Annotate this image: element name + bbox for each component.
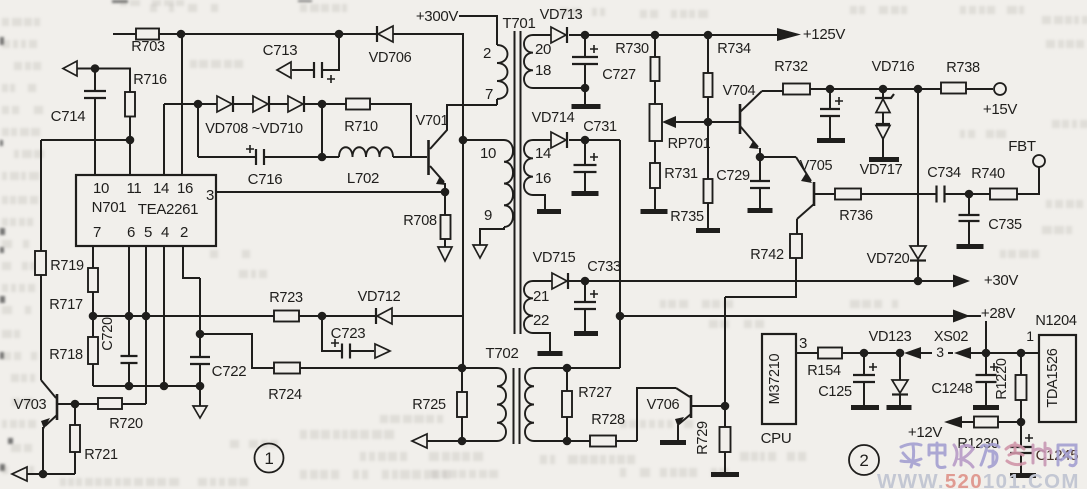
svg-text:+28V: +28V xyxy=(981,305,1016,322)
svg-text:R724: R724 xyxy=(268,387,302,403)
svg-text:R717: R717 xyxy=(49,297,83,313)
svg-text:N1204: N1204 xyxy=(1035,313,1076,329)
svg-text:C733: C733 xyxy=(587,259,621,275)
svg-text:C729: C729 xyxy=(716,168,750,184)
svg-text:C714: C714 xyxy=(51,108,86,125)
svg-text:R728: R728 xyxy=(591,412,625,428)
svg-text:7: 7 xyxy=(93,224,101,241)
svg-text:V703: V703 xyxy=(14,397,47,413)
svg-text:5: 5 xyxy=(144,224,152,241)
svg-text:N701: N701 xyxy=(92,199,127,216)
svg-text:3: 3 xyxy=(936,344,944,360)
svg-text:R727: R727 xyxy=(578,385,612,401)
svg-text:20: 20 xyxy=(535,41,551,58)
svg-text:R718: R718 xyxy=(49,347,83,363)
svg-text:18: 18 xyxy=(535,62,551,79)
svg-text:FBT: FBT xyxy=(1008,138,1036,155)
svg-text:9: 9 xyxy=(484,207,492,224)
svg-text:10: 10 xyxy=(93,180,109,197)
svg-text:C716: C716 xyxy=(248,171,283,188)
svg-text:R731: R731 xyxy=(664,166,698,182)
svg-text:R738: R738 xyxy=(946,60,980,76)
svg-text:VD708 ~VD710: VD708 ~VD710 xyxy=(205,121,303,137)
svg-text:3: 3 xyxy=(799,335,807,352)
svg-text:+125V: +125V xyxy=(803,26,846,43)
svg-text:11: 11 xyxy=(127,180,142,197)
svg-text:C1248: C1248 xyxy=(931,381,972,397)
svg-text:VD706: VD706 xyxy=(369,50,412,66)
svg-text:C722: C722 xyxy=(212,363,247,380)
svg-text:R719: R719 xyxy=(50,258,84,274)
svg-text:R742: R742 xyxy=(750,247,784,263)
svg-text:VD714: VD714 xyxy=(532,110,575,126)
svg-text:7: 7 xyxy=(485,86,493,103)
svg-text:R740: R740 xyxy=(971,166,1005,182)
svg-text:WWW.520101.COM: WWW.520101.COM xyxy=(877,470,1080,489)
svg-text:VD712: VD712 xyxy=(358,289,401,305)
svg-text:R710: R710 xyxy=(344,119,378,135)
svg-text:C720: C720 xyxy=(100,317,116,351)
svg-text:+15V: +15V xyxy=(983,101,1018,118)
svg-text:C723: C723 xyxy=(331,325,366,342)
svg-text:R725: R725 xyxy=(412,397,446,413)
svg-text:2: 2 xyxy=(859,451,868,470)
svg-text:V706: V706 xyxy=(647,397,680,413)
svg-text:R721: R721 xyxy=(84,447,118,463)
svg-text:V705: V705 xyxy=(800,158,833,174)
svg-text:TDA1526: TDA1526 xyxy=(1045,348,1061,407)
svg-text:M37210: M37210 xyxy=(767,353,783,404)
svg-text:R736: R736 xyxy=(839,208,873,224)
svg-text:3: 3 xyxy=(206,187,214,204)
svg-text:L702: L702 xyxy=(347,170,379,187)
svg-text:VD123: VD123 xyxy=(869,329,912,345)
svg-text:T702: T702 xyxy=(486,345,519,362)
svg-text:+300V: +300V xyxy=(416,8,459,25)
svg-text:R154: R154 xyxy=(807,363,841,379)
svg-text:C734: C734 xyxy=(927,165,961,181)
svg-text:R708: R708 xyxy=(403,213,437,229)
svg-text:R729: R729 xyxy=(695,421,711,455)
svg-text:R732: R732 xyxy=(774,59,808,75)
svg-text:+12V: +12V xyxy=(908,424,943,441)
svg-text:R730: R730 xyxy=(615,41,649,57)
svg-text:+30V: +30V xyxy=(984,272,1019,289)
svg-text:2: 2 xyxy=(483,45,491,62)
svg-text:R735: R735 xyxy=(670,209,704,225)
svg-text:6: 6 xyxy=(127,224,135,241)
svg-text:VD715: VD715 xyxy=(533,250,576,266)
svg-text:CPU: CPU xyxy=(761,430,792,447)
svg-text:V704: V704 xyxy=(723,83,756,99)
svg-text:VD713: VD713 xyxy=(540,7,583,23)
svg-text:10: 10 xyxy=(480,145,496,162)
svg-text:16: 16 xyxy=(535,170,551,187)
svg-text:C713: C713 xyxy=(263,42,298,59)
svg-text:21: 21 xyxy=(533,288,549,305)
svg-text:VD717: VD717 xyxy=(860,162,903,178)
svg-text:C727: C727 xyxy=(602,67,636,83)
svg-text:R1220: R1220 xyxy=(994,358,1010,399)
svg-text:RP701: RP701 xyxy=(668,136,711,152)
svg-text:1: 1 xyxy=(264,449,273,468)
svg-text:R734: R734 xyxy=(717,41,751,57)
svg-text:C125: C125 xyxy=(818,384,852,400)
svg-text:VD720: VD720 xyxy=(867,251,910,267)
svg-text:VD716: VD716 xyxy=(872,59,915,75)
svg-text:XS02: XS02 xyxy=(934,329,969,345)
svg-text:22: 22 xyxy=(533,312,549,329)
svg-text:C735: C735 xyxy=(988,217,1022,233)
svg-text:4: 4 xyxy=(161,224,169,241)
svg-text:2: 2 xyxy=(180,224,188,241)
svg-text:R703: R703 xyxy=(131,39,165,55)
svg-text:R720: R720 xyxy=(109,416,143,432)
svg-text:16: 16 xyxy=(177,180,193,197)
svg-text:R716: R716 xyxy=(133,72,167,88)
svg-text:14: 14 xyxy=(535,145,551,162)
svg-text:1: 1 xyxy=(1026,328,1034,344)
svg-text:R723: R723 xyxy=(269,290,303,306)
svg-text:C731: C731 xyxy=(583,119,617,135)
svg-text:TEA2261: TEA2261 xyxy=(138,201,198,218)
svg-text:V701: V701 xyxy=(416,113,449,129)
svg-text:14: 14 xyxy=(153,180,169,197)
svg-text:T701: T701 xyxy=(503,15,536,32)
